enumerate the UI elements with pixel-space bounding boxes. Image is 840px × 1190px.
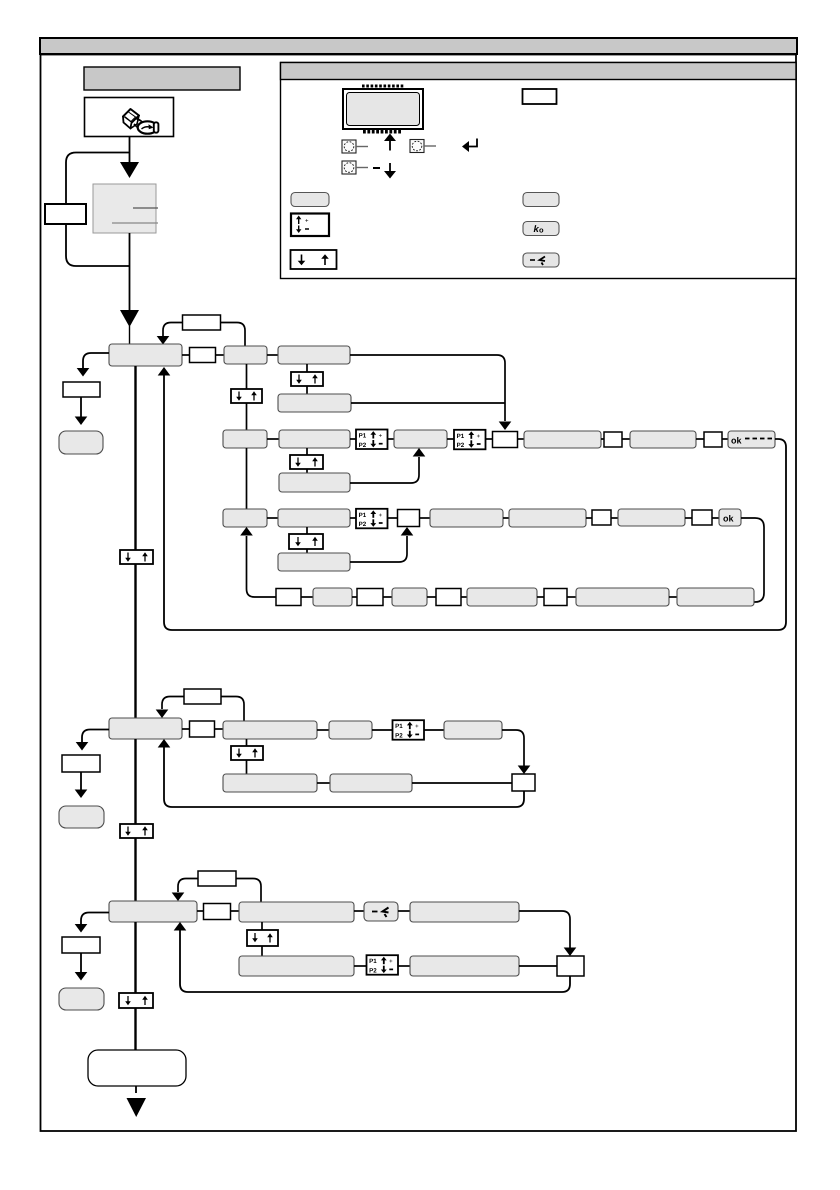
svg-text:ok: ok <box>731 436 742 446</box>
wire M1 to conn <box>182 354 190 356</box>
menu box M2 <box>109 718 182 739</box>
wire D7-D8 <box>567 596 576 598</box>
box D9 <box>677 588 754 606</box>
P1P2 box Bb <box>454 430 486 450</box>
wire selector A to subA <box>306 386 308 394</box>
key end cap <box>154 122 159 132</box>
arrow S1 down <box>80 397 82 417</box>
wire label L2 right curve <box>221 697 244 722</box>
wire P1P2-subF2 <box>398 965 410 967</box>
left gray box G1 <box>59 431 103 454</box>
wire B1 down to row C <box>246 448 248 509</box>
wire subC right and up into connC <box>350 536 407 562</box>
legend header bar <box>281 63 797 80</box>
wire A2 to A3 <box>267 354 278 356</box>
legend white box top right <box>523 89 557 104</box>
connector box Bw <box>493 432 518 448</box>
eps box <box>364 902 398 921</box>
big arrow into state box <box>120 162 139 178</box>
wire P1P2b-conn <box>486 438 493 440</box>
connector box Bw2 <box>604 432 622 447</box>
wire A3 right then down to row B <box>350 355 505 421</box>
LCD bottom pins <box>363 129 401 134</box>
wire D5-D6 <box>461 596 467 598</box>
sub box F1 <box>239 956 354 976</box>
white D7 <box>544 589 567 606</box>
white D3 <box>357 589 383 606</box>
wire conn to F1 <box>231 910 240 912</box>
arrow S3 down <box>80 953 82 972</box>
rotate arrow in bow <box>142 127 150 129</box>
legend gray button right <box>523 193 559 207</box>
wire D2-D3 <box>352 596 357 598</box>
downup selector C <box>289 534 323 549</box>
sub box F2 <box>410 956 519 976</box>
box B2 <box>279 430 350 448</box>
main wire below M2 <box>134 739 136 824</box>
wire selector B down <box>306 469 308 473</box>
wire C2 down <box>306 527 308 534</box>
button B1 <box>342 140 356 153</box>
big arrow into menu1 <box>120 310 139 327</box>
wire subF1-P1P2 <box>354 965 367 967</box>
wire label L2 left curve <box>162 697 184 710</box>
box D8 <box>576 588 669 606</box>
wire label L1 right curve <box>221 323 246 347</box>
wire F1 down <box>261 922 263 930</box>
LCD top pins <box>362 85 403 88</box>
connector box A0 <box>190 348 216 363</box>
svg-text:o: o <box>539 226 544 235</box>
enter arrow <box>468 139 477 147</box>
wire M3 to conn <box>197 910 203 912</box>
wire subA right to junction <box>351 402 505 404</box>
box B3 <box>394 430 447 448</box>
wire eps-F2 <box>398 910 410 912</box>
wire state box to arrow <box>129 233 131 311</box>
connector box 3end <box>557 956 584 976</box>
wire connC2-C5 <box>611 517 618 519</box>
box D6 <box>467 588 537 606</box>
wire C5-connC3 <box>685 517 692 519</box>
connector box Cw3 <box>692 510 712 525</box>
wire label L1 left curve <box>163 323 183 337</box>
label box L2 <box>184 689 221 704</box>
wire B2 down <box>306 448 308 455</box>
box A3 <box>278 346 350 364</box>
P1P2 box E <box>393 720 425 740</box>
svg-text:ok: ok <box>723 514 734 524</box>
wire P1P2-connC <box>388 517 398 519</box>
box E3 <box>444 721 502 739</box>
box A2 <box>224 346 267 364</box>
connector box Cw <box>398 510 420 527</box>
return loop 2 <box>164 747 524 807</box>
button B2 <box>410 140 424 153</box>
white tag box on loop <box>45 204 86 224</box>
wire F1-eps <box>354 910 364 912</box>
loop C to row D <box>741 518 764 602</box>
wire B4-conn2 <box>601 438 604 440</box>
box F1 <box>239 902 354 922</box>
legend box <box>281 63 797 279</box>
wire selector A2 down to row B <box>246 403 248 430</box>
P1P2 box F <box>367 955 399 975</box>
legend ko button <box>523 222 559 236</box>
wire conn3-okdash <box>722 438 728 440</box>
page header band <box>40 38 797 54</box>
main downup selector 1 <box>120 550 153 564</box>
wire C4-connC2 <box>586 517 592 519</box>
wire A3 down <box>306 364 308 372</box>
wire B1-B2 <box>267 438 279 440</box>
wire B5-conn3 <box>696 438 704 440</box>
wire B2-P1P2 <box>350 438 356 440</box>
downup selector F <box>247 930 278 946</box>
LCD display outer <box>343 89 423 129</box>
wire D1-D2 <box>301 596 313 598</box>
dash <box>373 167 380 169</box>
state display box <box>93 184 156 233</box>
wire selector C down <box>306 549 308 553</box>
state box line 2 <box>112 222 158 224</box>
connector box Bw3 <box>704 432 722 447</box>
box D4 <box>392 588 427 606</box>
menu box M3 <box>109 901 197 922</box>
title bar <box>84 67 240 90</box>
terminal rounded box <box>88 1050 186 1086</box>
wire row D left loop up into C1 <box>247 536 277 597</box>
wire conn to E1 <box>215 728 224 730</box>
box C4 <box>509 509 586 527</box>
box C5 <box>618 509 685 526</box>
legend updown plus-minus box <box>291 214 329 237</box>
LCD display inner <box>347 93 420 126</box>
wire conn to A2 <box>216 354 225 356</box>
ok dashes box <box>728 431 775 448</box>
wire A2 down to selector A2 <box>246 364 248 389</box>
wire subE2 to conn2end <box>412 782 512 784</box>
return loop from okdash to M1 <box>164 375 786 630</box>
left white box S3 <box>62 937 100 953</box>
box B5 <box>630 431 696 448</box>
arrow S2 down <box>80 772 82 790</box>
main downup selector 3 <box>119 993 153 1008</box>
label box L3 <box>198 871 236 886</box>
wire P1P2-E3 <box>424 729 444 731</box>
wire E3 right then down <box>502 730 524 766</box>
legend eps button <box>523 253 559 267</box>
wire C1-C2 <box>267 517 278 519</box>
wire subB right and up into B3 <box>350 457 419 483</box>
wire F2 right then down <box>519 911 570 948</box>
left white box S2 <box>62 755 100 772</box>
up arrow legend <box>389 139 391 151</box>
menu box M1 <box>109 344 182 366</box>
connector box Cw2 <box>592 510 611 525</box>
box E2 <box>329 721 372 739</box>
row C box C1 <box>223 509 267 527</box>
wire label L3 right curve <box>236 879 261 903</box>
main wire continues <box>134 838 136 901</box>
sub box C <box>278 553 350 571</box>
button B3 <box>342 161 356 174</box>
legend gray button left <box>291 193 329 207</box>
connector box 2a <box>190 721 215 737</box>
wire D6-D7 <box>537 596 544 598</box>
left branch wire from M1 <box>83 353 109 368</box>
wire E1 down <box>246 739 248 746</box>
sub box B <box>279 473 350 492</box>
P1P2 box Ba <box>356 430 388 450</box>
box F2 <box>410 902 519 922</box>
wire C2-P1P2 <box>350 517 356 519</box>
key box <box>85 98 174 137</box>
sub box A <box>278 394 351 412</box>
wire M2 to conn <box>182 728 189 730</box>
big arrow to next page <box>127 1098 147 1117</box>
key neck <box>136 119 144 124</box>
wire selector E down <box>246 760 248 774</box>
bypass loop around state box <box>66 153 130 267</box>
wire subF2 to conn3end <box>519 965 557 967</box>
key head (3d cube) <box>123 109 139 123</box>
legend downup box <box>291 250 337 269</box>
key icon <box>123 109 158 134</box>
main downup selector 2 <box>120 824 153 838</box>
wire E1-E2 <box>317 729 329 731</box>
downup selector A <box>291 372 323 386</box>
main wire continues <box>134 1008 136 1050</box>
wire D3-D4 <box>383 596 392 598</box>
downup selector B <box>290 455 323 469</box>
box C2 <box>278 509 350 527</box>
wire selector F down <box>261 946 263 956</box>
white D5 <box>436 589 461 606</box>
box B4 <box>524 431 601 448</box>
left branch wire from M2 <box>82 730 109 743</box>
wire connC-C3 <box>420 517 431 519</box>
wire subE1-subE2 <box>317 782 330 784</box>
wire P1P2-B3 <box>388 438 395 440</box>
svg-text:+: + <box>305 219 309 225</box>
row D white D1 <box>276 589 301 606</box>
stub below terminal <box>135 1086 137 1093</box>
connector box 3a <box>204 904 231 920</box>
main wire continues <box>134 564 136 718</box>
box D2 <box>313 588 352 606</box>
wire connC3-okC <box>712 517 719 519</box>
label box L1 <box>183 315 221 330</box>
main wire below M1 <box>134 366 136 550</box>
left branch wire from M3 <box>81 913 109 925</box>
state box line 1 <box>133 207 158 209</box>
return loop 3 <box>180 930 570 992</box>
connector box 2end <box>512 774 535 791</box>
downup selector E <box>231 746 263 760</box>
down arrow legend <box>389 163 391 173</box>
left gray box G2 <box>59 806 104 828</box>
wire E2-P1P2 <box>372 729 393 731</box>
wire D4-D5 <box>427 596 436 598</box>
box E1 <box>223 721 317 739</box>
wire label L3 left curve <box>178 879 198 893</box>
left white box S1 <box>63 382 100 397</box>
key bow oval <box>138 121 158 133</box>
row B box B1 <box>223 430 267 448</box>
sub box E2 <box>330 774 412 792</box>
wire conn2-B5 <box>622 438 630 440</box>
left gray box G3 <box>59 988 104 1010</box>
main wire below M3 <box>134 922 136 993</box>
wire from key box down <box>129 137 131 163</box>
P1P2 box C <box>356 509 388 529</box>
box C3 <box>430 509 503 527</box>
sub box E1 <box>223 774 317 792</box>
wire conn-B4 <box>518 438 525 440</box>
downup selector A2 <box>231 389 262 403</box>
wire D8-D9 <box>669 596 677 598</box>
wire C3-C4 <box>503 517 509 519</box>
wire B3-P1P2b <box>447 438 454 440</box>
ok box C <box>719 509 741 526</box>
